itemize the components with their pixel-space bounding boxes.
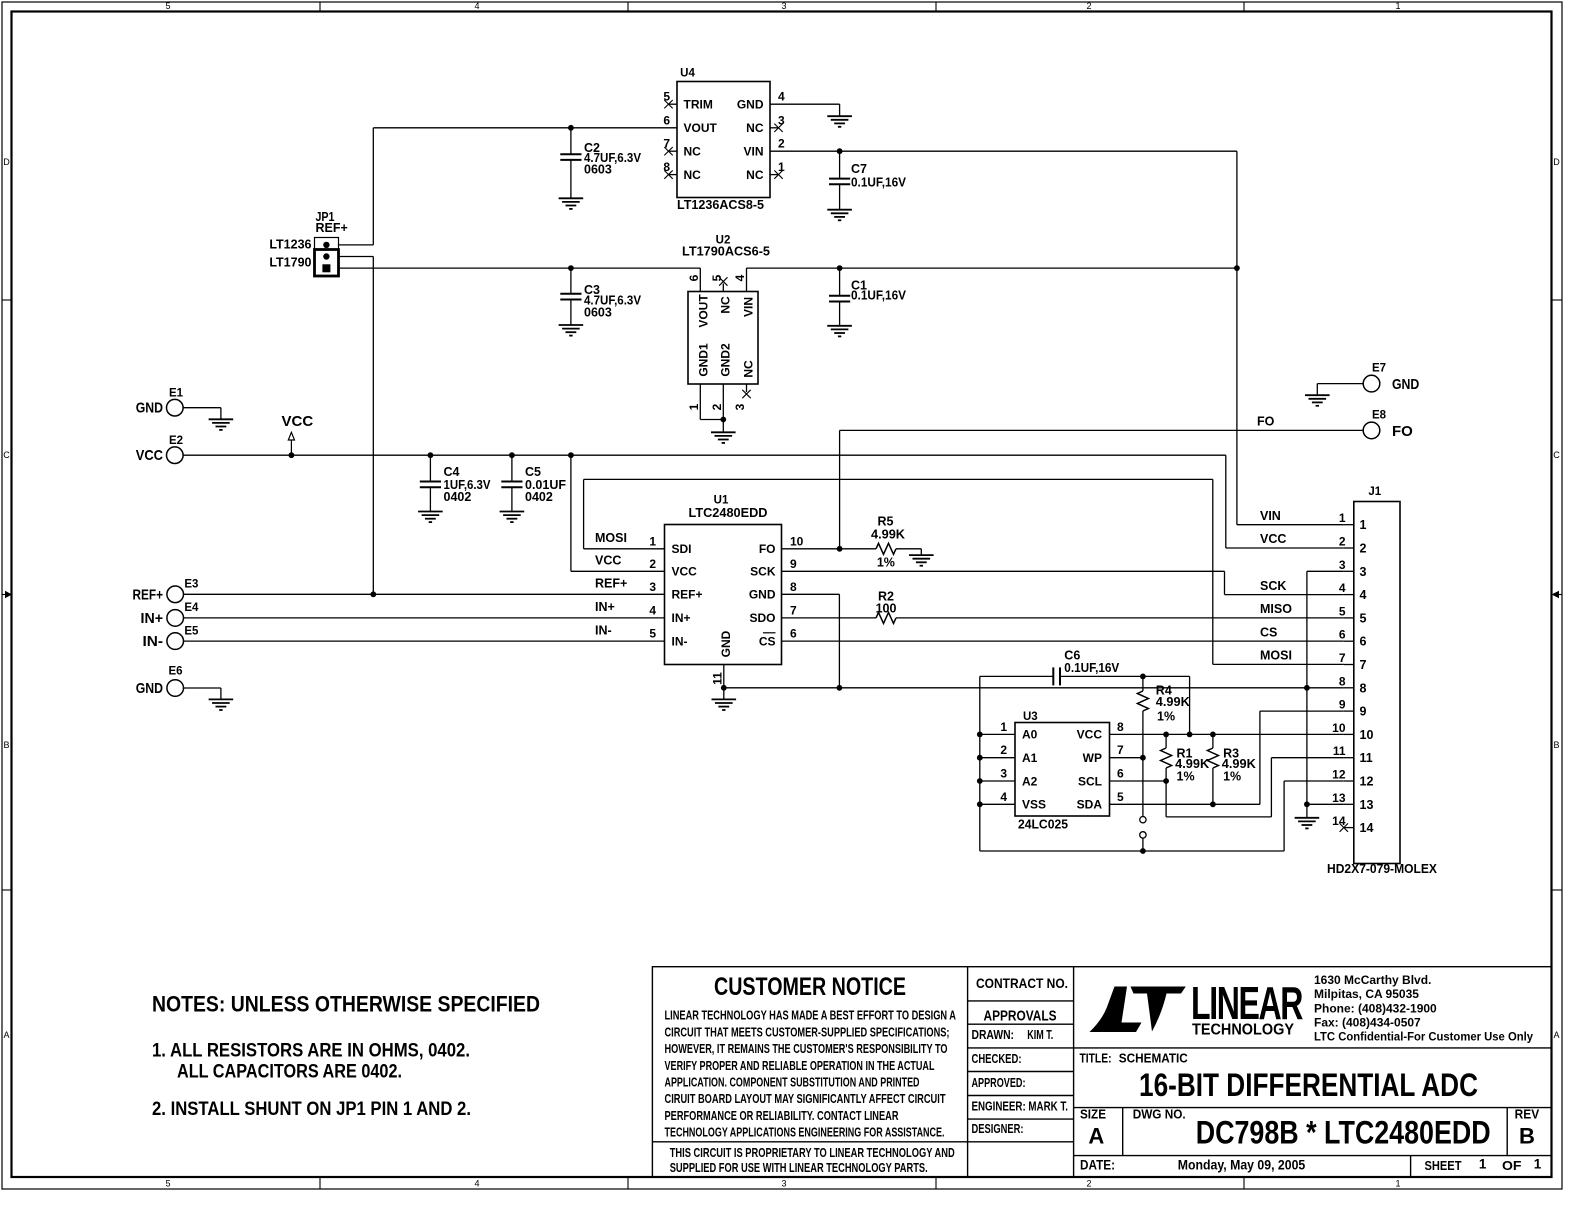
svg-text:12: 12: [1332, 768, 1346, 782]
svg-text:Phone: (408)432-1900: Phone: (408)432-1900: [1314, 1002, 1437, 1016]
svg-text:5: 5: [710, 274, 724, 281]
svg-text:4: 4: [474, 1179, 479, 1189]
svg-text:1: 1: [1395, 1179, 1400, 1189]
svg-text:E6: E6: [168, 666, 182, 678]
svg-text:VCC: VCC: [595, 554, 621, 568]
svg-text:9: 9: [790, 557, 797, 571]
svg-text:A: A: [1088, 1124, 1104, 1149]
svg-text:2. INSTALL SHUNT ON JP1 PIN 1: 2. INSTALL SHUNT ON JP1 PIN 1 AND 2.: [152, 1098, 471, 1120]
svg-text:7: 7: [790, 603, 797, 617]
svg-text:TECHNOLOGY APPLICATIONS ENGINE: TECHNOLOGY APPLICATIONS ENGINEERING FOR …: [665, 1126, 945, 1140]
svg-text:8: 8: [1117, 720, 1124, 734]
svg-text:CUSTOMER NOTICE: CUSTOMER NOTICE: [714, 973, 906, 1001]
svg-text:9: 9: [1360, 705, 1367, 719]
svg-text:VIN: VIN: [743, 145, 763, 159]
svg-text:10: 10: [1360, 728, 1374, 742]
svg-text:FO: FO: [759, 542, 776, 556]
svg-text:GND: GND: [737, 98, 764, 112]
svg-text:E5: E5: [184, 625, 199, 637]
svg-text:LT1236ACS8-5: LT1236ACS8-5: [677, 198, 764, 212]
svg-text:0.1UF,16V: 0.1UF,16V: [851, 176, 907, 190]
svg-text:1%: 1%: [1157, 710, 1175, 724]
svg-text:VOUT: VOUT: [697, 294, 711, 328]
svg-text:GND1: GND1: [697, 343, 711, 377]
svg-text:REF+: REF+: [672, 588, 703, 602]
svg-text:5: 5: [165, 1179, 170, 1189]
svg-text:2: 2: [1360, 542, 1367, 556]
svg-text:CIRCUIT THAT MEETS CUSTOMER-SU: CIRCUIT THAT MEETS CUSTOMER-SUPPLIED SPE…: [665, 1025, 950, 1039]
svg-text:IN-: IN-: [595, 623, 612, 637]
svg-text:SDI: SDI: [672, 542, 692, 556]
svg-text:13: 13: [1332, 791, 1346, 805]
svg-text:MOSI: MOSI: [1260, 649, 1292, 663]
svg-text:2: 2: [778, 137, 785, 151]
svg-text:1: 1: [778, 160, 785, 174]
svg-text:8: 8: [663, 160, 670, 174]
svg-text:APPROVED:: APPROVED:: [972, 1076, 1026, 1090]
svg-text:VSS: VSS: [1022, 798, 1046, 812]
svg-text:4: 4: [1000, 790, 1007, 804]
svg-text:KIM T.: KIM T.: [1027, 1028, 1053, 1042]
svg-text:A2: A2: [1022, 774, 1038, 788]
svg-text:2: 2: [1086, 1179, 1091, 1189]
svg-text:DATE:: DATE:: [1080, 1157, 1115, 1172]
svg-text:0603: 0603: [584, 306, 612, 320]
svg-text:LT1790ACS6-5: LT1790ACS6-5: [682, 245, 770, 259]
svg-text:VCC: VCC: [672, 565, 698, 579]
svg-text:12: 12: [1360, 775, 1374, 789]
svg-text:4.99K: 4.99K: [871, 528, 905, 542]
svg-text:0603: 0603: [584, 162, 612, 176]
svg-text:11: 11: [711, 672, 725, 685]
svg-text:5: 5: [1339, 604, 1346, 618]
svg-text:A: A: [1553, 1030, 1559, 1040]
svg-text:TRIM: TRIM: [684, 98, 713, 112]
svg-text:A0: A0: [1022, 728, 1038, 742]
svg-text:6: 6: [663, 113, 670, 127]
svg-text:3: 3: [778, 113, 785, 127]
svg-text:D: D: [3, 157, 10, 167]
svg-text:U1: U1: [714, 495, 729, 507]
svg-text:1: 1: [1395, 1, 1400, 11]
svg-text:SCHEMATIC: SCHEMATIC: [1119, 1052, 1188, 1066]
svg-text:1: 1: [1339, 511, 1346, 525]
svg-text:4: 4: [733, 274, 747, 281]
svg-text:U4: U4: [680, 68, 695, 80]
svg-text:GND: GND: [1392, 376, 1419, 393]
svg-text:5: 5: [663, 90, 670, 104]
svg-text:ENGINEER: MARK T.: ENGINEER: MARK T.: [972, 1100, 1069, 1114]
svg-text:3: 3: [649, 580, 656, 594]
svg-text:E2: E2: [169, 435, 183, 447]
svg-text:8: 8: [1360, 681, 1367, 695]
svg-text:11: 11: [1333, 744, 1346, 758]
svg-text:C5: C5: [525, 465, 541, 479]
svg-text:IN-: IN-: [143, 633, 164, 650]
svg-text:1: 1: [1360, 518, 1367, 532]
svg-text:CONTRACT NO.: CONTRACT NO.: [976, 975, 1068, 991]
svg-text:10: 10: [790, 534, 804, 548]
svg-text:10: 10: [1332, 721, 1346, 735]
svg-text:FO: FO: [1392, 423, 1413, 440]
svg-text:DWG NO.: DWG NO.: [1133, 1108, 1186, 1122]
svg-text:DRAWN:: DRAWN:: [972, 1028, 1015, 1042]
svg-text:SCL: SCL: [1078, 774, 1102, 788]
svg-text:LTC2480EDD: LTC2480EDD: [689, 506, 768, 520]
svg-text:CS: CS: [1260, 625, 1277, 639]
svg-text:11: 11: [1360, 751, 1373, 765]
svg-text:REF+: REF+: [133, 586, 164, 603]
svg-text:4: 4: [1360, 588, 1367, 602]
svg-text:2: 2: [710, 403, 724, 410]
svg-text:B: B: [1553, 740, 1559, 750]
svg-text:1: 1: [1534, 1156, 1542, 1171]
svg-text:SDO: SDO: [749, 611, 775, 625]
svg-text:1: 1: [687, 403, 701, 410]
svg-text:CHECKED:: CHECKED:: [972, 1052, 1022, 1066]
svg-text:NOTES: UNLESS OTHERWISE SPECI: NOTES: UNLESS OTHERWISE SPECIFIED: [152, 992, 540, 1017]
svg-text:VCC: VCC: [282, 413, 314, 430]
svg-text:D: D: [1553, 157, 1560, 167]
svg-text:3: 3: [1339, 558, 1346, 572]
svg-text:1: 1: [649, 534, 656, 548]
svg-text:B: B: [3, 740, 9, 750]
svg-text:B: B: [1519, 1124, 1535, 1149]
svg-text:SDA: SDA: [1077, 798, 1103, 812]
svg-text:7: 7: [663, 137, 670, 151]
svg-text:LT1236: LT1236: [269, 238, 311, 252]
svg-text:ALL CAPACITORS ARE 0402.: ALL CAPACITORS ARE 0402.: [177, 1061, 402, 1083]
svg-text:GND: GND: [749, 588, 776, 602]
svg-text:APPROVALS: APPROVALS: [984, 1008, 1057, 1025]
svg-text:2: 2: [649, 557, 656, 571]
svg-text:E4: E4: [184, 602, 199, 614]
svg-text:7: 7: [1339, 651, 1346, 665]
svg-text:NC: NC: [719, 296, 733, 314]
svg-text:HD2X7-079-MOLEX: HD2X7-079-MOLEX: [1327, 862, 1438, 876]
svg-text:U3: U3: [1023, 711, 1038, 723]
svg-text:E7: E7: [1372, 362, 1386, 374]
svg-text:E8: E8: [1372, 410, 1387, 422]
svg-text:6: 6: [1117, 767, 1124, 781]
svg-text:5: 5: [649, 627, 656, 641]
svg-text:SCK: SCK: [1260, 579, 1286, 593]
svg-text:E1: E1: [169, 387, 184, 399]
svg-text:MISO: MISO: [1260, 602, 1292, 616]
svg-text:LINEAR TECHNOLOGY HAS MADE A B: LINEAR TECHNOLOGY HAS MADE A BEST EFFORT…: [665, 1009, 957, 1023]
svg-text:24LC025: 24LC025: [1018, 818, 1068, 832]
svg-text:VIN: VIN: [742, 297, 756, 317]
svg-text:6: 6: [1360, 635, 1367, 649]
svg-text:PERFORMANCE OR RELIABILITY. C: PERFORMANCE OR RELIABILITY. CONTACT LINE…: [665, 1109, 899, 1123]
svg-text:GND: GND: [136, 680, 163, 697]
svg-text:8: 8: [790, 580, 797, 594]
svg-text:APPLICATION. COMPONENT SUBSTI: APPLICATION. COMPONENT SUBSTITUTION AND …: [665, 1076, 920, 1090]
svg-text:4.99K: 4.99K: [1156, 695, 1190, 709]
svg-text:Milpitas, CA 95035: Milpitas, CA 95035: [1314, 987, 1419, 1001]
svg-text:2: 2: [1000, 743, 1007, 757]
svg-text:3: 3: [1360, 565, 1367, 579]
svg-text:9: 9: [1339, 698, 1346, 712]
svg-text:IN+: IN+: [595, 600, 615, 614]
svg-text:REV: REV: [1515, 1108, 1540, 1122]
svg-text:R5: R5: [878, 514, 894, 528]
svg-text:Monday, May 09, 2005: Monday, May 09, 2005: [1178, 1157, 1306, 1172]
svg-text:4: 4: [649, 603, 656, 617]
svg-text:3: 3: [1000, 767, 1007, 781]
svg-text:0.1UF,16V: 0.1UF,16V: [1064, 661, 1120, 675]
svg-text:THIS CIRCUIT IS PROPRIETARY TO: THIS CIRCUIT IS PROPRIETARY TO LINEAR TE…: [670, 1146, 955, 1160]
svg-text:7: 7: [1360, 658, 1367, 672]
svg-text:GND: GND: [136, 400, 163, 417]
svg-text:IN-: IN-: [672, 634, 688, 648]
svg-text:14: 14: [1360, 821, 1374, 835]
svg-text:7: 7: [1117, 743, 1124, 757]
svg-text:LT1790: LT1790: [269, 255, 311, 269]
svg-text:TECHNOLOGY: TECHNOLOGY: [1192, 1022, 1294, 1039]
svg-text:6: 6: [790, 627, 797, 641]
svg-text:1: 1: [1479, 1156, 1487, 1171]
svg-text:MOSI: MOSI: [595, 531, 627, 545]
svg-text:VIN: VIN: [1260, 509, 1281, 523]
svg-text:3: 3: [733, 403, 747, 410]
svg-text:C4: C4: [444, 465, 460, 479]
svg-text:8: 8: [1339, 674, 1346, 688]
svg-text:1%: 1%: [877, 555, 895, 569]
svg-text:VCC: VCC: [136, 447, 163, 464]
svg-text:6: 6: [1339, 628, 1346, 642]
svg-text:NC: NC: [746, 121, 764, 135]
svg-text:6: 6: [687, 274, 701, 281]
svg-text:13: 13: [1360, 798, 1374, 812]
svg-text:4: 4: [778, 90, 785, 104]
svg-text:1: 1: [1000, 720, 1007, 734]
svg-text:VERIFY PROPER AND RELIABLE OPE: VERIFY PROPER AND RELIABLE OPERATION IN …: [665, 1059, 935, 1073]
svg-text:100: 100: [876, 602, 897, 616]
svg-text:0402: 0402: [444, 490, 472, 504]
svg-text:SCK: SCK: [750, 565, 776, 579]
svg-text:SHEET: SHEET: [1425, 1159, 1462, 1173]
svg-text:A1: A1: [1022, 751, 1038, 765]
svg-text:0402: 0402: [525, 490, 553, 504]
svg-text:2: 2: [1339, 535, 1346, 549]
svg-text:VCC: VCC: [1077, 728, 1103, 742]
svg-text:1%: 1%: [1223, 770, 1241, 784]
svg-text:IN+: IN+: [141, 610, 164, 627]
svg-text:0.1UF,16V: 0.1UF,16V: [851, 289, 907, 303]
svg-text:2: 2: [1086, 1, 1091, 11]
svg-text:NC: NC: [746, 168, 764, 182]
svg-text:VOUT: VOUT: [684, 121, 718, 135]
svg-text:DC798B * LTC2480EDD: DC798B * LTC2480EDD: [1196, 1115, 1491, 1151]
svg-text:FO: FO: [1257, 415, 1275, 429]
svg-text:CIRUIT BOARD LAYOUT MAY SIGNIF: CIRUIT BOARD LAYOUT MAY SIGNIFICANTLY AF…: [665, 1092, 946, 1106]
svg-text:TITLE:: TITLE:: [1080, 1052, 1112, 1066]
svg-text:J1: J1: [1368, 486, 1381, 498]
svg-text:VCC: VCC: [1260, 532, 1286, 546]
svg-text:C7: C7: [851, 162, 867, 176]
svg-text:NC: NC: [684, 168, 702, 182]
svg-text:4: 4: [1339, 581, 1346, 595]
svg-text:5: 5: [165, 1, 170, 11]
svg-text:16-BIT DIFFERENTIAL ADC: 16-BIT DIFFERENTIAL ADC: [1139, 1067, 1478, 1103]
svg-text:NC: NC: [742, 360, 756, 378]
svg-text:A: A: [3, 1030, 9, 1040]
svg-text:CS: CS: [759, 634, 776, 648]
svg-text:3: 3: [781, 1, 786, 11]
svg-text:NC: NC: [684, 145, 702, 159]
svg-text:IN+: IN+: [672, 611, 691, 625]
svg-text:1%: 1%: [1177, 770, 1195, 784]
svg-text:1. ALL RESISTORS ARE IN OHMS,: 1. ALL RESISTORS ARE IN OHMS, 0402.: [152, 1040, 470, 1062]
svg-text:REF+: REF+: [595, 577, 627, 591]
svg-text:GND: GND: [719, 630, 733, 657]
svg-text:3: 3: [781, 1179, 786, 1189]
svg-text:5: 5: [1360, 611, 1367, 625]
svg-text:E3: E3: [184, 579, 198, 591]
svg-text:C: C: [1553, 450, 1560, 460]
svg-text:LTC Confidential-For Customer: LTC Confidential-For Customer Use Only: [1314, 1030, 1533, 1044]
svg-text:5: 5: [1117, 790, 1124, 804]
svg-text:14: 14: [1332, 814, 1346, 828]
svg-text:DESIGNER:: DESIGNER:: [972, 1122, 1024, 1136]
svg-text:SUPPLIED FOR USE WITH LINEAR T: SUPPLIED FOR USE WITH LINEAR TECHNOLOGY …: [670, 1161, 928, 1175]
svg-text:GND2: GND2: [719, 343, 733, 377]
svg-text:SIZE: SIZE: [1080, 1108, 1106, 1122]
svg-text:REF+: REF+: [316, 221, 348, 235]
svg-text:C: C: [3, 450, 10, 460]
svg-text:1630 McCarthy Blvd.: 1630 McCarthy Blvd.: [1314, 973, 1431, 987]
svg-text:WP: WP: [1083, 751, 1102, 765]
svg-text:OF: OF: [1502, 1159, 1522, 1173]
svg-text:4: 4: [474, 1, 479, 11]
svg-text:HOWEVER, IT REMAINS THE CUSTOM: HOWEVER, IT REMAINS THE CUSTOMER'S RESPO…: [665, 1042, 948, 1056]
svg-text:Fax: (408)434-0507: Fax: (408)434-0507: [1314, 1016, 1421, 1030]
